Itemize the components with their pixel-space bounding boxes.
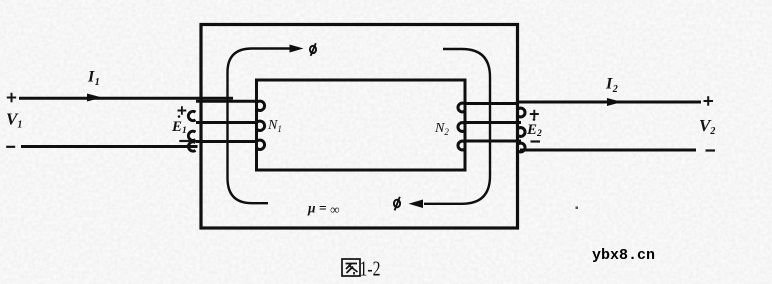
current arrow I2 on top-right wire xyxy=(607,98,622,106)
secondary winding N2 left hook 1 xyxy=(458,103,465,112)
caption figure 1-2: hand drawn CJK glyph tu xyxy=(342,259,360,276)
primary winding N1 turn 2 xyxy=(196,121,257,124)
primary winding N1 turn 1 xyxy=(196,100,257,103)
winding label E2 plus sign xyxy=(530,110,539,119)
secondary winding N2 turn 1 xyxy=(465,102,519,105)
winding label E2 minus sign xyxy=(531,140,541,142)
primary winding N1 right hook 2 xyxy=(257,121,264,130)
transformer core outer boundary xyxy=(201,25,518,229)
terminal plus sign V2 xyxy=(704,96,714,105)
primary winding N1 turn 3 xyxy=(196,140,257,143)
primary winding N1 left hook 1 xyxy=(188,111,195,120)
flux arrowhead top (pointing right) xyxy=(290,45,304,53)
wire top-right from winding N2 to V2 plus terminal xyxy=(519,101,701,104)
terminal minus sign V1 xyxy=(6,146,15,148)
primary winding N1 right hook 1 xyxy=(257,101,264,110)
secondary winding N2 left hook 2 xyxy=(458,123,465,132)
svg-text:ybx8.cn: ybx8.cn xyxy=(592,247,655,264)
secondary winding N2 turn 3 xyxy=(465,140,521,143)
terminal minus sign V2 xyxy=(706,149,716,151)
transformer core window inner boundary xyxy=(257,80,466,170)
secondary winding N2 right hook 3 (exit to bottom wire) xyxy=(519,143,526,152)
phasor dot over E2 xyxy=(533,118,536,121)
flux label phi top xyxy=(310,43,316,56)
winding label E1 plus sign xyxy=(178,106,187,115)
wire bottom-left from winding N1 to V1 minus terminal xyxy=(21,145,198,148)
terminal plus sign V1 xyxy=(7,93,16,102)
flux label phi bottom xyxy=(394,197,400,211)
svg-text:μ = ∞: μ = ∞ xyxy=(307,201,340,218)
primary winding N1 left hook 2 xyxy=(188,131,195,140)
flux arrowhead bottom (pointing left) xyxy=(409,200,424,209)
current arrow I1 on top-left wire xyxy=(87,94,102,102)
wire bottom-right from winding N2 to V2 minus terminal xyxy=(520,149,696,152)
primary winding N1 right hook 3 xyxy=(257,140,264,149)
secondary winding N2 turn 2 xyxy=(465,121,521,124)
secondary winding N2 right hook 1 xyxy=(519,108,526,117)
flux path right loop segment xyxy=(424,49,490,204)
svg-text:1-2: 1-2 xyxy=(360,257,381,281)
winding label E1 minus sign xyxy=(179,140,190,142)
secondary winding N2 left hook 3 xyxy=(458,141,465,150)
secondary winding N2 right hook 2 xyxy=(519,128,526,137)
phasor dot over E1 xyxy=(178,115,181,118)
primary winding N1 left hook 3 (exit to bottom wire) xyxy=(188,142,195,151)
flux path left loop segment xyxy=(228,49,295,204)
stray scan speck xyxy=(576,207,579,210)
wire top-left from V1 plus terminal to winding N1 xyxy=(19,97,233,100)
